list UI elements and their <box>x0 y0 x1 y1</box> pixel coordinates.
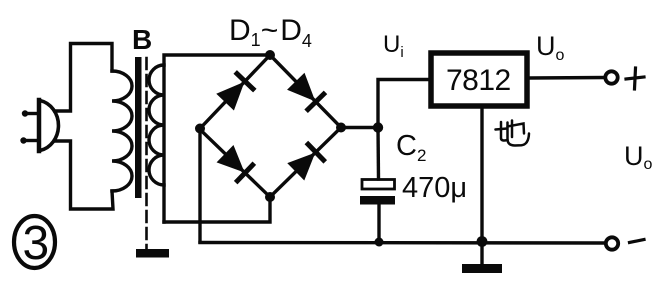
wire capacitor bottom lead <box>377 204 380 242</box>
transformer B core <box>135 57 142 198</box>
svg-text:B: B <box>132 24 152 55</box>
wire bridge arm left-bottom <box>200 129 271 197</box>
plug prong lower <box>20 137 38 143</box>
wire DC minus drop <box>198 133 201 242</box>
diode D4 (bottom-right arm) <box>289 144 324 179</box>
svg-text:Uo: Uo <box>624 141 653 173</box>
svg-text:Uo: Uo <box>536 31 565 64</box>
node DC minus left (open) <box>195 124 205 134</box>
terminal plus (open circle) <box>605 71 617 83</box>
wire capacitor top lead <box>376 128 380 180</box>
label minus sign <box>630 240 645 243</box>
diode D2 (top-right arm) <box>288 74 323 109</box>
core shield dashed wire <box>145 58 148 248</box>
wire bridge arm bottom-right <box>270 128 341 198</box>
wire secondary top to bridge AC top <box>164 55 270 222</box>
plug prong upper <box>22 110 38 116</box>
plug P <box>39 100 58 151</box>
wire bridge arm left-top <box>200 55 271 129</box>
node AC top (junction dot) <box>265 50 275 60</box>
wire ground stub <box>480 242 483 264</box>
svg-text:470μ: 470μ <box>402 172 467 204</box>
svg-text:D1~D4: D1~D4 <box>229 14 312 51</box>
wire primary bottom to plug <box>55 141 113 209</box>
svg-text:C2: C2 <box>396 130 426 165</box>
node DC plus right (junction dot) <box>336 123 346 133</box>
svg-text:3: 3 <box>23 217 50 270</box>
label ground 地 <box>496 121 530 146</box>
label plus sign <box>626 68 644 89</box>
ground (regulator) <box>462 264 502 273</box>
figure number 3 <box>14 216 55 270</box>
svg-text:Ui: Ui <box>383 31 404 61</box>
wire negative rail <box>200 241 605 245</box>
wire plug to primary top <box>55 44 112 112</box>
node ground junction <box>477 236 488 247</box>
transformer B primary winding <box>112 71 132 191</box>
node AC bottom (open) <box>265 192 275 202</box>
wire regulator ground pin <box>480 107 483 242</box>
regulator U1 7812 <box>431 53 527 106</box>
node Ui junction <box>373 122 383 132</box>
node capacitor-rail junction <box>375 238 384 247</box>
wire junction to regulator input <box>378 80 428 128</box>
ground (core shield) <box>136 249 169 258</box>
wire bridge arm top-right <box>270 55 341 128</box>
wire secondary bottom to bridge AC bottom <box>164 200 270 222</box>
svg-text:7812: 7812 <box>446 64 511 97</box>
terminal minus (open circle) <box>606 237 618 249</box>
wire regulator output <box>530 76 605 80</box>
diode D1 (left-top arm) <box>218 74 253 110</box>
wire DC plus to junction <box>345 126 378 129</box>
transformer B secondary winding <box>149 65 164 185</box>
diode D3 (left-bottom arm) <box>218 146 253 181</box>
capacitor C2 <box>360 180 395 205</box>
